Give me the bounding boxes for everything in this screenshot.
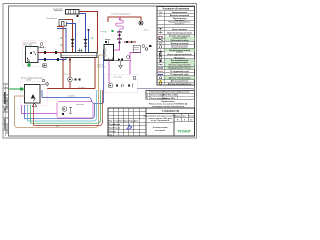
DHW pump group (magenta box) bbox=[104, 74, 137, 92]
svg-text:Кран балансировочный: Кран балансировочный bbox=[167, 32, 192, 35]
wire: boiler loop return bottom (blue) bbox=[42, 49, 106, 104]
gauge cluster on boiler A bbox=[39, 43, 44, 48]
svg-text:на полотенцесушители: на полотенцесушители bbox=[111, 14, 130, 16]
wire: radiator supply (red) bbox=[79, 12, 98, 53]
svg-text:скважина: скважина bbox=[76, 104, 84, 106]
svg-text:20 кВт: 20 кВт bbox=[26, 80, 31, 82]
wire: floor loop return (blue) bbox=[66, 24, 76, 53]
wire: radiator return (blue) bbox=[79, 14, 86, 53]
svg-text:Лист: Лист bbox=[182, 115, 186, 117]
wire: bottom bundle red bbox=[34, 90, 103, 126]
svg-text:Примечание: Примечание bbox=[178, 92, 190, 94]
wire: floor loop supply (red) bbox=[66, 20, 73, 53]
expansion tank ET1 bbox=[33, 103, 37, 107]
wire: well line (tan) bbox=[15, 55, 107, 128]
svg-text:Клапан подпиточный: Клапан подпиточный bbox=[169, 64, 191, 67]
svg-text:Кран шаровой: Кран шаровой bbox=[172, 28, 187, 31]
svg-text:косв. нагр.: косв. нагр. bbox=[97, 67, 106, 69]
fittings under coil bbox=[117, 31, 121, 44]
DHW coil W2 (magenta serpentine) bbox=[116, 20, 124, 29]
outer border frame bbox=[3, 4, 197, 139]
svg-text:на бойлер: на бойлер bbox=[67, 94, 75, 97]
svg-text:Бойлер 200л: Бойлер 200л bbox=[163, 97, 176, 100]
svg-text:10: 10 bbox=[190, 120, 192, 122]
left margin stamp cells bbox=[3, 84, 9, 136]
svg-text:1: 1 bbox=[147, 95, 148, 97]
svg-text:Т-00000/09-ТМ: Т-00000/09-ТМ bbox=[162, 110, 179, 113]
svg-text:Тепловая схема: Тепловая схема bbox=[153, 127, 169, 129]
legend table "Условные обозначения" bbox=[157, 7, 195, 86]
recirculation pump P4 bbox=[108, 83, 132, 87]
wire: branch return (blue) bbox=[57, 29, 66, 53]
wire: boiler loop supply bottom (red) bbox=[47, 58, 95, 89]
wire: bottom bundle blue bbox=[25, 104, 95, 119]
wire: bottom bundle magenta bbox=[22, 105, 58, 114]
well pump zone (magenta box) bbox=[57, 102, 93, 119]
svg-text:Т1 подающий труб.: Т1 подающий труб. bbox=[170, 70, 190, 73]
solid fuel boiler B2 bbox=[25, 85, 41, 104]
wire: second riser return (blue) bbox=[88, 29, 90, 53]
water meter unit bbox=[133, 45, 152, 52]
svg-text:2: 2 bbox=[147, 98, 148, 100]
wire: cold water supply (gray) bbox=[137, 88, 195, 90]
svg-text:Насос циркуляционный: Насос циркуляционный bbox=[167, 53, 192, 56]
inner drawing frame bbox=[9, 6, 195, 136]
wire: branch supply (red) bbox=[57, 27, 63, 53]
svg-text:Оборудование в боксе: Оборудование в боксе bbox=[168, 67, 192, 70]
signature bbox=[127, 125, 133, 129]
svg-text:Датчик температуры: Датчик температуры bbox=[169, 77, 190, 79]
wire: recirc up (magenta) bbox=[109, 53, 141, 84]
svg-text:Изм: Изм bbox=[109, 120, 113, 122]
svg-text:Фильтр сетчатый: Фильтр сетчатый bbox=[171, 42, 190, 45]
svg-text:насос СО: насос СО bbox=[64, 74, 72, 76]
label: du25 bbox=[56, 125, 60, 127]
wire: bottom bundle green bbox=[31, 90, 101, 123]
red branch fittings right of tank bbox=[124, 41, 136, 43]
svg-text:котельной: котельной bbox=[155, 129, 166, 132]
svg-text:Датчик давления: Датчик давления bbox=[171, 81, 189, 83]
wire: bottom bundle cyan bbox=[28, 90, 97, 121]
floor heating coil W1 bbox=[46, 17, 67, 26]
towel pump P3 bbox=[139, 21, 148, 32]
wire: towel dryer supply (red) bbox=[108, 17, 141, 22]
safety sensor (green lock) bbox=[28, 62, 31, 66]
sensor on boiler B (green) bbox=[9, 88, 25, 91]
boiler unit A (gas boiler zone) bbox=[22, 41, 45, 67]
svg-text:Иванов: Иванов bbox=[114, 124, 122, 126]
title block (основная надпись) bbox=[108, 108, 195, 136]
label: na boiler bbox=[67, 94, 75, 97]
svg-text:Вентиль запорный: Вентиль запорный bbox=[170, 14, 190, 17]
svg-text:Листов: Листов bbox=[188, 115, 195, 117]
svg-text:насос ГВС: насос ГВС bbox=[113, 77, 122, 79]
svg-text:Наименование: Наименование bbox=[172, 12, 188, 14]
towel dryer label bbox=[111, 14, 130, 16]
safety group under tank bbox=[104, 56, 131, 69]
radiator HR1 bbox=[66, 10, 80, 18]
wire: DHW down (magenta) bbox=[114, 17, 120, 50]
heating pump P5 on loop bbox=[64, 58, 81, 89]
svg-text:Н.контр: Н.контр bbox=[109, 131, 117, 133]
hydraulic collector K1 bbox=[61, 49, 97, 61]
valve fittings on boiler A lines bbox=[44, 51, 59, 61]
svg-text:Датчик загазованности: Датчик загазованности bbox=[168, 83, 192, 85]
boiler unit B (solid fuel zone) bbox=[20, 77, 47, 106]
gauge cluster on boiler B bbox=[41, 79, 48, 85]
svg-text:по ул. Сиреневая 4: по ул. Сиреневая 4 bbox=[151, 119, 170, 122]
svg-text:Котел твердотопливный: Котел твердотопливный bbox=[21, 77, 42, 80]
wire: boiler A supply (red) bbox=[38, 52, 63, 54]
svg-text:Т2 обратный труб.: Т2 обратный труб. bbox=[170, 73, 189, 76]
svg-text:Теплый пол: Теплый пол bbox=[46, 17, 58, 20]
svg-text:Петров: Петров bbox=[114, 127, 121, 129]
equipment list table bbox=[146, 91, 195, 100]
well pump P2 bbox=[62, 107, 72, 115]
svg-text:Обратный клапан: Обратный клапан bbox=[170, 39, 189, 42]
notes text block bbox=[149, 101, 188, 108]
valve V1 (balancing on floor loop) bbox=[71, 39, 75, 47]
label: heating risers bbox=[53, 8, 64, 10]
svg-text:Наименование: Наименование bbox=[163, 92, 177, 94]
svg-text:Манометр: Манометр bbox=[174, 57, 185, 59]
green sensor GVS bbox=[100, 30, 114, 34]
valve V2 (balancing on radiator return) bbox=[84, 39, 88, 47]
svg-text:Baxi Slim 1.490: Baxi Slim 1.490 bbox=[163, 94, 177, 97]
svg-text:Nдок: Nдок bbox=[123, 120, 128, 122]
svg-text:расширительный: расширительный bbox=[171, 61, 188, 64]
svg-text:Утв.: Утв. bbox=[109, 134, 113, 136]
fittings above tank bbox=[105, 40, 110, 45]
svg-text:аварийная: аварийная bbox=[174, 23, 184, 26]
svg-text:Условные обозначения: Условные обозначения bbox=[162, 8, 189, 11]
pump P1 bbox=[42, 63, 46, 67]
svg-text:поз.5: поз.5 bbox=[144, 30, 148, 32]
svg-text:9: 9 bbox=[184, 120, 185, 122]
svg-text:Обозначение: Обозначение bbox=[151, 92, 163, 94]
svg-text:Стадия: Стадия bbox=[174, 115, 180, 117]
sensor labels (green) bbox=[59, 37, 94, 47]
DHW tank T1 (бойлер косвенного нагрева) bbox=[97, 45, 114, 69]
svg-text:соблюдая технику безопасности: соблюдая технику безопасности bbox=[152, 105, 185, 108]
svg-text:ТТ котел: ТТ котел bbox=[78, 87, 85, 89]
wire: boiler A return (blue) bbox=[38, 58, 66, 60]
gas boiler B1 bbox=[26, 47, 39, 63]
label: TT kotel bbox=[78, 87, 85, 89]
svg-text:РУСАНТ: РУСАНТ bbox=[178, 130, 191, 134]
